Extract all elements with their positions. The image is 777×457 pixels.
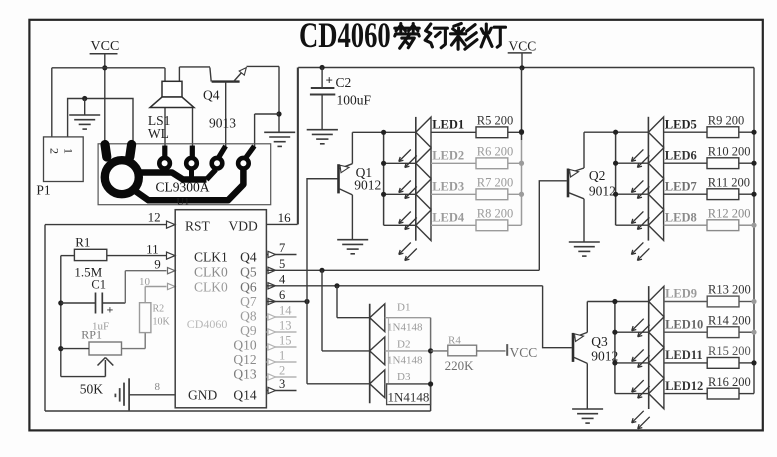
svg-text:8: 8: [155, 381, 161, 393]
svg-text:9: 9: [154, 257, 161, 272]
svg-text:RP1: RP1: [81, 328, 102, 342]
svg-text:R13 200: R13 200: [708, 283, 751, 297]
svg-text:R9 200: R9 200: [708, 113, 744, 127]
svg-text:220K: 220K: [445, 358, 475, 373]
svg-text:Q7: Q7: [240, 294, 257, 309]
svg-text:1: 1: [279, 349, 285, 363]
svg-text:GND: GND: [188, 388, 217, 403]
svg-text:R11 200: R11 200: [708, 175, 750, 189]
svg-text:RST: RST: [185, 219, 211, 234]
svg-text:CL9300A: CL9300A: [156, 180, 210, 195]
svg-text:10: 10: [139, 276, 151, 288]
svg-text:2: 2: [279, 364, 285, 378]
svg-text:2: 2: [48, 148, 62, 154]
svg-text:Q4: Q4: [203, 88, 220, 103]
svg-text:Q6: Q6: [240, 280, 257, 295]
svg-text:9012: 9012: [354, 178, 381, 193]
svg-text:7: 7: [279, 241, 285, 255]
svg-text:R12 200: R12 200: [708, 206, 751, 220]
svg-text:D3: D3: [397, 371, 411, 383]
svg-text:4: 4: [279, 273, 286, 287]
svg-text:D2: D2: [397, 339, 410, 351]
svg-text:Q5: Q5: [240, 265, 257, 280]
svg-text:Q2: Q2: [589, 168, 606, 183]
svg-text:13: 13: [279, 319, 292, 333]
svg-text:11: 11: [146, 242, 159, 257]
svg-text:R8 200: R8 200: [477, 207, 513, 221]
svg-text:14: 14: [279, 304, 292, 318]
svg-text:1N4148: 1N4148: [388, 390, 430, 405]
svg-text:R15 200: R15 200: [708, 344, 751, 358]
svg-text:CD4060: CD4060: [187, 317, 228, 331]
svg-text:CLK0: CLK0: [194, 265, 228, 280]
svg-text:R14 200: R14 200: [708, 313, 751, 327]
svg-text:Q12: Q12: [233, 352, 256, 367]
svg-text:D1: D1: [397, 302, 410, 314]
svg-text:R6 200: R6 200: [477, 145, 513, 159]
svg-text:12: 12: [148, 210, 161, 225]
svg-text:LED9: LED9: [665, 287, 697, 301]
svg-text:LED1: LED1: [432, 118, 464, 132]
svg-text:1: 1: [62, 148, 76, 154]
svg-text:C1: C1: [91, 278, 106, 292]
svg-text:LED2: LED2: [432, 149, 464, 163]
svg-text:LED10: LED10: [665, 317, 703, 331]
svg-text:R7 200: R7 200: [477, 176, 513, 190]
svg-text:LED11: LED11: [665, 348, 703, 362]
svg-text:LED8: LED8: [665, 210, 697, 224]
svg-text:Q3: Q3: [591, 334, 608, 349]
svg-text:P1: P1: [36, 183, 50, 198]
svg-text:Q13: Q13: [233, 367, 256, 382]
svg-text:+: +: [107, 303, 114, 317]
svg-text:5: 5: [279, 257, 285, 271]
svg-text:1N4148: 1N4148: [387, 355, 423, 367]
svg-text:U1: U1: [177, 197, 190, 208]
svg-text:50K: 50K: [80, 382, 104, 397]
svg-text:15: 15: [279, 334, 292, 348]
svg-text:16: 16: [278, 210, 292, 225]
svg-text:C2: C2: [336, 75, 352, 90]
svg-text:+: +: [326, 73, 333, 88]
svg-text:3: 3: [279, 377, 285, 391]
svg-text:VCC: VCC: [509, 39, 537, 54]
svg-text:VCC: VCC: [91, 39, 120, 54]
svg-text:10K: 10K: [153, 317, 171, 328]
svg-text:9012: 9012: [589, 184, 616, 199]
svg-text:1N4148: 1N4148: [387, 322, 423, 334]
svg-text:6: 6: [279, 288, 285, 302]
svg-text:VDD: VDD: [229, 219, 258, 234]
svg-text:R10 200: R10 200: [708, 144, 751, 158]
svg-text:LED12: LED12: [665, 379, 703, 393]
svg-text:WL: WL: [148, 126, 169, 141]
svg-text:R2: R2: [153, 304, 165, 315]
svg-text:CLK1: CLK1: [194, 250, 228, 265]
svg-text:CD4060: CD4060: [299, 15, 391, 55]
svg-text:Q10: Q10: [233, 338, 256, 353]
svg-text:R5 200: R5 200: [477, 114, 513, 128]
svg-text:R1: R1: [75, 235, 90, 250]
svg-text:9013: 9013: [209, 116, 236, 131]
svg-text:100uF: 100uF: [337, 93, 372, 108]
svg-text:LED3: LED3: [432, 180, 464, 194]
svg-text:VCC: VCC: [510, 345, 538, 360]
svg-text:Q9: Q9: [240, 323, 257, 338]
svg-text:LED7: LED7: [665, 179, 697, 193]
svg-text:CLK0: CLK0: [194, 280, 228, 295]
svg-text:Q8: Q8: [240, 309, 257, 324]
svg-text:LED5: LED5: [665, 117, 697, 131]
svg-text:LED4: LED4: [432, 211, 465, 225]
svg-text:LED6: LED6: [665, 148, 697, 162]
svg-text:R4: R4: [448, 335, 461, 347]
svg-text:R16 200: R16 200: [708, 375, 751, 389]
svg-text:Q14: Q14: [233, 388, 256, 403]
svg-text:Q4: Q4: [240, 250, 257, 265]
